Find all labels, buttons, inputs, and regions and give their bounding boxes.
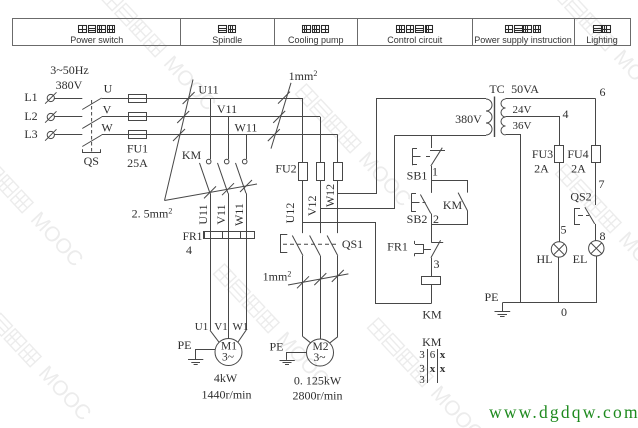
wire QS1 pole 1 to M2: [302, 256, 304, 337]
pushbutton SB2 contact: [420, 195, 430, 214]
contactor KM contact 3: [242, 159, 247, 164]
KM table divider 1: [427, 349, 429, 383]
svg-text:FU2: FU2: [275, 162, 296, 176]
svg-text:3~50Hz: 3~50Hz: [50, 63, 88, 77]
wire QS1 pole 2 to M2: [320, 256, 322, 339]
header column Power switch: [70, 26, 123, 46]
switch QS1 handle: [281, 235, 288, 253]
svg-text:V11: V11: [217, 102, 237, 116]
svg-text:MOOC: MOOC: [426, 382, 487, 428]
wire FU2 to QS1 pole 1: [302, 181, 304, 234]
svg-text:QS2: QS2: [570, 190, 591, 204]
svg-text:PE: PE: [484, 290, 498, 304]
switch QS2 blade: [585, 207, 595, 224]
marker tick W12: [332, 270, 344, 282]
svg-text:KM: KM: [422, 335, 442, 349]
wire SB1 branch top: [431, 135, 433, 148]
ground M2: [287, 353, 307, 360]
svg-text:U1: U1: [195, 321, 208, 333]
svg-text:8: 8: [600, 229, 606, 243]
switch QS pole 3 blade: [82, 135, 101, 147]
svg-text:KM: KM: [182, 148, 202, 162]
wire 0 rail: [502, 302, 596, 304]
marker tick V row: [177, 111, 189, 123]
svg-text:FR1: FR1: [183, 231, 203, 243]
svg-text:W12: W12: [323, 184, 337, 207]
wire SB2 to FR1 contact: [431, 214, 433, 243]
svg-text:KM: KM: [422, 308, 442, 322]
wire FR1 to M1 lead 1: [210, 239, 212, 331]
svg-text:FR1: FR1: [387, 240, 408, 254]
wire FU2 to QS1 pole 2: [320, 181, 322, 234]
svg-text:50VA: 50VA: [511, 82, 539, 96]
header column Cooling pump: [288, 26, 344, 46]
wire M2 lead left diag: [303, 337, 311, 344]
terminal L2 circle: [47, 113, 54, 120]
wire KM contact 2 to FR1: [228, 193, 230, 231]
svg-text:L1: L1: [24, 90, 37, 104]
pushbutton SB1 contact: [430, 150, 445, 152]
svg-text:MOOC: MOOC: [614, 228, 638, 291]
svg-text:0. 125kW: 0. 125kW: [294, 374, 342, 388]
header table frame: [13, 19, 631, 46]
wire-size marker 2.5mm2 steep line: [165, 80, 194, 201]
svg-text:PE: PE: [269, 340, 283, 354]
wire drop 2 to KM: [228, 117, 230, 159]
svg-text:FU3: FU3: [532, 147, 553, 161]
wire tap U12 to control: [303, 223, 431, 304]
transformer TC primary winding: [486, 99, 492, 135]
wire HL to rail: [558, 257, 560, 303]
wire M1 lead right diag: [238, 330, 246, 342]
svg-text:6: 6: [430, 349, 436, 361]
wire-size marker 1mm2 top line: [271, 83, 291, 149]
marker tick wire W11: [240, 180, 252, 192]
thermal FR1 actuator: [414, 241, 416, 244]
marker tick V12: [314, 273, 326, 285]
wire KM aux bottom: [431, 211, 467, 225]
header column Control circuit: [387, 26, 443, 46]
svg-text:HL: HL: [537, 252, 553, 266]
wire QS1 pole 3 to M2: [337, 256, 339, 337]
svg-text:1440r/min: 1440r/min: [202, 388, 252, 402]
transformer TC secondary winding: [501, 99, 506, 135]
header divider 2: [274, 19, 276, 46]
svg-text:4: 4: [563, 107, 569, 121]
svg-text:MOOC: MOOC: [609, 46, 638, 109]
wire secondary tap 24V: [506, 117, 560, 146]
motor M2 circle: [307, 339, 334, 366]
wire FR1 to M1 lead 3: [246, 239, 248, 331]
svg-text:380V: 380V: [455, 112, 482, 126]
svg-text:MOOC: MOOC: [34, 362, 95, 425]
wire QS2 to EL: [595, 224, 597, 241]
wire FR1 to coil: [431, 258, 433, 277]
marker tick U: [278, 92, 290, 104]
svg-text:QS1: QS1: [342, 237, 363, 251]
svg-text:Spindle: Spindle: [212, 35, 242, 45]
svg-text:3~: 3~: [222, 352, 234, 364]
marker tick wire U11: [204, 186, 216, 198]
marker tick U12: [297, 276, 309, 288]
wire control top: [376, 98, 486, 100]
svg-text:6: 6: [600, 85, 606, 99]
svg-text:2A: 2A: [534, 162, 549, 176]
switch QS linkage: [91, 100, 93, 153]
wire drop 3 to KM: [246, 135, 248, 159]
switch QS pole 1 blade: [82, 98, 101, 110]
transformer TC core: [494, 97, 496, 138]
svg-text:3~: 3~: [314, 352, 326, 364]
contact KM aux blade: [458, 193, 468, 211]
header column Lighting: [586, 26, 618, 46]
svg-text:U11: U11: [198, 83, 218, 97]
marker tick V: [273, 111, 285, 123]
wire V row corner down: [320, 117, 322, 163]
wire M2 lead right diag: [330, 337, 338, 344]
wire L2 to QS: [54, 116, 82, 118]
header divider 3: [357, 19, 359, 46]
svg-text:3: 3: [419, 349, 425, 361]
svg-text:L2: L2: [24, 109, 37, 123]
wire-size marker 1mm2 bottom line: [288, 274, 348, 285]
svg-text:2800r/min: 2800r/min: [293, 389, 343, 403]
svg-text:W: W: [101, 121, 113, 135]
svg-text:0: 0: [561, 305, 567, 319]
svg-text:www.dgdqw.com: www.dgdqw.com: [489, 402, 638, 422]
header column Spindle: [212, 26, 242, 46]
KM table divider 2: [437, 349, 439, 383]
wire V row: [102, 116, 321, 118]
fuse FU4: [592, 146, 601, 163]
watermark 5: [210, 262, 333, 392]
svg-text:Control circuit: Control circuit: [387, 35, 443, 45]
marker tick U row: [183, 92, 195, 104]
svg-text:7: 7: [599, 177, 605, 191]
pushbutton SB2 actuator: [411, 193, 413, 212]
motor M1 circle: [215, 339, 242, 366]
svg-text:2. 5mm2: 2. 5mm2: [132, 207, 173, 221]
contactor KM contact 1: [206, 159, 211, 164]
svg-text:3: 3: [419, 374, 425, 386]
svg-text:V11: V11: [214, 204, 228, 224]
svg-text:Power supply instruction: Power supply instruction: [474, 35, 572, 45]
svg-text:x: x: [440, 349, 446, 361]
switch QS bracket: [83, 149, 101, 152]
svg-text:4kW: 4kW: [214, 371, 238, 385]
contactor KM contact 2: [224, 159, 229, 164]
lamp HL: [551, 242, 566, 257]
watermark 4: [292, 82, 415, 212]
svg-text:Lighting: Lighting: [586, 35, 618, 45]
terminal L3 circle: [47, 131, 54, 138]
switch QS1 pole 2 blade: [310, 236, 321, 256]
switch QS1 pole 3 blade: [327, 236, 338, 256]
svg-text:3: 3: [434, 257, 440, 271]
wire node6 down: [595, 99, 597, 145]
pushbutton SB1 actuator: [412, 148, 414, 165]
fuse FU3: [555, 146, 564, 163]
wire KM aux branch top: [431, 181, 467, 193]
svg-text:380V: 380V: [56, 78, 83, 92]
wire U row: [102, 98, 303, 100]
marker tick W row: [173, 129, 185, 141]
wire KM contact 1 to FR1: [210, 193, 212, 231]
svg-text:FU4: FU4: [567, 147, 588, 161]
wire FR1 to M1 lead 2: [228, 239, 230, 339]
wire U row corner down: [302, 98, 304, 163]
switch QS2 actuator: [574, 208, 576, 224]
switch QS1 linkage: [283, 243, 338, 245]
wire SB1 to SB2: [431, 166, 433, 193]
fuse FU2 element 2: [317, 163, 325, 181]
FR1 heater element 1: [205, 232, 211, 239]
wire-size marker 2.5mm2 shallow line: [165, 184, 258, 201]
svg-text:x: x: [430, 363, 436, 375]
wire tap V12 to control: [320, 135, 394, 208]
svg-text:EL: EL: [573, 252, 588, 266]
svg-text:2: 2: [433, 212, 439, 226]
contact FR1 NC: [431, 242, 443, 244]
svg-text:25A: 25A: [127, 156, 148, 170]
wire KM contact 3 to FR1: [246, 193, 248, 231]
wire tap W12 to control: [338, 98, 377, 193]
wire drop 1 to KM: [210, 98, 212, 159]
header divider 1: [180, 19, 182, 46]
wire FU2 to QS1 pole 3: [337, 181, 339, 234]
fuse FU2 element 3: [334, 163, 343, 181]
fuse FU2 element 1: [299, 163, 308, 181]
fuse FU1 element 1: [129, 95, 147, 103]
FR1 heater element 2: [223, 232, 229, 239]
svg-text:W11: W11: [232, 203, 246, 226]
svg-text:U11: U11: [196, 204, 210, 224]
svg-text:1mm2: 1mm2: [263, 270, 292, 284]
marker tick wire V11: [222, 183, 234, 195]
svg-text:36V: 36V: [513, 120, 532, 132]
svg-text:W11: W11: [235, 121, 258, 135]
watermark 8: [364, 316, 487, 428]
svg-text:4: 4: [186, 243, 192, 257]
svg-text:KM: KM: [443, 198, 463, 212]
svg-text:1: 1: [432, 165, 438, 179]
svg-text:2A: 2A: [571, 162, 586, 176]
svg-text:5: 5: [561, 223, 567, 237]
wire W row corner down: [337, 135, 339, 163]
wire FU4 to QS2: [595, 163, 597, 205]
wire TC primary bottom: [395, 135, 487, 137]
coil KM: [422, 277, 441, 285]
wire secondary bottom 36V: [506, 135, 521, 304]
wire secondary top: [506, 98, 596, 100]
FR1 heater element 3: [241, 232, 247, 239]
fuse FU1 element 2: [129, 113, 147, 121]
wire W row: [102, 134, 338, 136]
ground M1: [196, 350, 216, 360]
watermark 3: [0, 296, 95, 426]
wire FU3 to HL: [559, 163, 561, 242]
watermark 6: [547, 0, 638, 109]
svg-text:V: V: [103, 103, 112, 117]
svg-text:TC: TC: [489, 82, 504, 96]
fuse FU1 element 3: [129, 131, 147, 139]
watermark 2: [0, 142, 87, 272]
svg-text:V12: V12: [305, 195, 319, 216]
header divider 5: [574, 19, 576, 46]
watermark 1: [97, 0, 220, 115]
wire coil to bottom: [431, 285, 433, 304]
svg-text:x: x: [440, 363, 446, 375]
svg-text:1mm2: 1mm2: [289, 69, 318, 83]
header column Power supply instruction: [474, 26, 572, 46]
switch QS1 pole 1 blade: [292, 236, 303, 256]
ground 0 rail: [502, 303, 504, 312]
watermark 7: [552, 162, 638, 292]
wire EL to rail: [596, 256, 598, 303]
svg-text:MOOC: MOOC: [26, 208, 87, 271]
thermal relay FR1 heater box: [204, 232, 255, 239]
lamp EL: [589, 241, 604, 256]
svg-text:24V: 24V: [513, 104, 532, 116]
marker tick W: [268, 129, 280, 141]
svg-text:W1: W1: [233, 321, 249, 333]
wire L1 to QS: [54, 98, 82, 100]
switch QS pole 2 blade: [82, 117, 101, 129]
terminal L1 circle: [47, 94, 54, 101]
svg-text:V1: V1: [214, 321, 227, 333]
header divider 4: [472, 19, 474, 46]
wire M1 lead left diag: [210, 330, 219, 342]
wire L3 to QS: [54, 134, 82, 136]
svg-text:U: U: [104, 82, 113, 96]
svg-text:Cooling pump: Cooling pump: [288, 35, 344, 45]
svg-text:Power switch: Power switch: [70, 35, 123, 45]
svg-text:L3: L3: [24, 127, 37, 141]
svg-text:PE: PE: [177, 338, 191, 352]
svg-text:QS: QS: [84, 154, 99, 168]
svg-text:FU1: FU1: [127, 142, 148, 156]
svg-text:SB2: SB2: [407, 212, 428, 226]
svg-text:U12: U12: [283, 203, 297, 224]
svg-text:SB1: SB1: [407, 169, 428, 183]
